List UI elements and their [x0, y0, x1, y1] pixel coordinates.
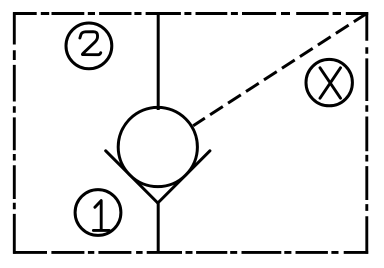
check valve seat right line: [158, 151, 210, 203]
enclosure border right edge (dash-dot): [365, 12, 368, 254]
wire from seat vertex to port 1 (bottom): [157, 202, 160, 252]
pilot line (dashed) from ball to port X corner: [193, 14, 366, 126]
enclosure border top edge (dash-dot): [13, 12, 368, 15]
check valve seat left line: [106, 151, 158, 203]
label 1: [93, 201, 109, 231]
enclosure border bottom edge (dash-dot): [13, 251, 368, 254]
port circle X: [306, 59, 352, 105]
enclosure border left edge (dash-dot): [13, 12, 16, 254]
port circle 2: [66, 23, 112, 69]
port circle 1: [75, 190, 121, 236]
wire from port 2 (top) to check valve ball: [157, 14, 160, 111]
label X: [320, 68, 341, 98]
label 2: [80, 32, 101, 55]
check valve ball: [118, 107, 197, 186]
